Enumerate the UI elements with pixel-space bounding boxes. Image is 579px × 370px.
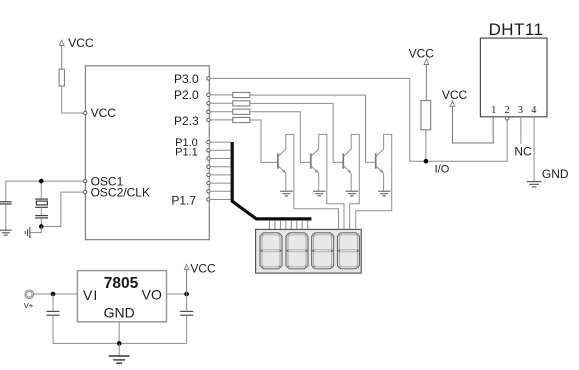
bus (thick) MCU P1 to display xyxy=(232,142,311,219)
transistor Q1 xyxy=(278,134,339,229)
resistor R4 (row P2.2) xyxy=(233,109,250,114)
digit 3 xyxy=(312,233,334,269)
wire R5 to Q1 base xyxy=(250,120,278,162)
wire R3 to Q3 base xyxy=(250,103,343,162)
7805 U3 box xyxy=(77,271,166,322)
resistor R2 (row P2.0) xyxy=(233,92,250,97)
wires P1.0-P1.7 to bus xyxy=(210,142,231,199)
wire R1 to MCU VCC pin xyxy=(62,86,85,113)
wire J1 to VI xyxy=(33,293,77,295)
pin P2.1 circle xyxy=(207,102,210,105)
svg-text:P2.0: P2.0 xyxy=(174,88,199,102)
wire P3.0 to DHT11 I/O xyxy=(210,78,507,161)
wire P2.0 to R2 xyxy=(210,94,233,96)
VCC symbol (DHT11 pin1) xyxy=(450,101,493,143)
wire R4 to Q2 base xyxy=(250,112,311,163)
svg-text:NC: NC xyxy=(514,144,532,158)
pin 3 stub NC xyxy=(520,117,522,144)
capacitor C4 (output) xyxy=(180,294,193,343)
MCU U1 box xyxy=(85,66,209,240)
wire R2 to Q4 base xyxy=(250,95,376,162)
svg-text:VI: VI xyxy=(83,287,98,303)
svg-text:VO: VO xyxy=(142,287,162,303)
ground (Q2 emitter) xyxy=(313,191,326,196)
transistor Q3 xyxy=(343,134,359,229)
wire OSC2/CLK xyxy=(43,192,85,226)
svg-text:VCC: VCC xyxy=(68,36,94,50)
junction dot node XTAL2 xyxy=(39,224,44,229)
capacitor C2 (below crystal) xyxy=(35,216,48,227)
VCC symbol (7805 output) xyxy=(184,264,189,294)
wire rail to ground symbol xyxy=(118,343,120,356)
VCC symbol (top left) xyxy=(59,40,64,69)
display DS1 box xyxy=(256,229,362,273)
bus comb ticks to display xyxy=(270,221,308,230)
ground (below C1) xyxy=(0,230,12,235)
pin P2.3 circle xyxy=(207,118,210,121)
pin OSC2/CLK circle xyxy=(84,190,87,193)
resistor R6 (vertical pull-up) xyxy=(421,101,431,130)
svg-text:4: 4 xyxy=(531,105,537,116)
svg-text:P2.3: P2.3 xyxy=(174,114,199,128)
resistor R1 (vertical, top left) xyxy=(59,69,64,86)
svg-text:GND: GND xyxy=(542,167,569,181)
svg-text:VCC: VCC xyxy=(409,47,435,61)
junction dot (ground rail) xyxy=(117,341,122,346)
pins P1.0-P1.7 circles xyxy=(207,140,210,201)
junction dot node XTAL1 xyxy=(39,179,44,184)
connector J1 V+ xyxy=(25,290,34,299)
svg-text:V+: V+ xyxy=(24,301,34,310)
digit 2 xyxy=(286,233,308,269)
wire GND pin to rail xyxy=(118,322,120,344)
wire VO to output node xyxy=(167,293,187,295)
svg-text:VCC: VCC xyxy=(442,88,468,102)
wire P2.1 to R3 xyxy=(210,102,233,104)
digit 1 xyxy=(260,233,282,269)
ground (Q4 emitter) xyxy=(378,191,391,196)
svg-text:GND: GND xyxy=(104,305,135,321)
transistor Q2 xyxy=(311,134,344,229)
junction dot node I/O xyxy=(424,159,429,164)
svg-text:VCC: VCC xyxy=(190,262,216,276)
pin OSC1 circle xyxy=(84,179,87,182)
svg-text:DHT11: DHT11 xyxy=(489,20,544,39)
wire OSC1 xyxy=(6,181,85,201)
pin P3.0 circle xyxy=(207,77,210,80)
svg-text:I/O: I/O xyxy=(435,163,450,175)
resistor R3 (row P2.1) xyxy=(233,101,250,106)
ground (7805) xyxy=(109,356,130,363)
ground (rotated, crystal) xyxy=(25,227,30,238)
pin VCC circle xyxy=(84,111,87,114)
wire P2.3 to R5 xyxy=(210,119,233,121)
ground (DHT11 pin4) xyxy=(527,182,542,187)
svg-text:1: 1 xyxy=(491,105,496,116)
pin P2.2 circle xyxy=(207,110,210,113)
pin P2.0 circle xyxy=(207,93,210,96)
svg-text:P3.0: P3.0 xyxy=(174,72,199,86)
DHT11 U2 box xyxy=(480,38,547,117)
svg-text:P1.7: P1.7 xyxy=(171,194,196,208)
wire R6 to I/O node xyxy=(425,130,427,161)
svg-text:7805: 7805 xyxy=(104,275,139,292)
svg-text:OSC2/CLK: OSC2/CLK xyxy=(91,186,150,200)
wire P2.2 to R4 xyxy=(210,111,233,113)
junction dot (input cap) xyxy=(51,292,56,297)
crystal Y1 xyxy=(35,181,48,216)
capacitor C3 (input) xyxy=(47,294,60,343)
pin 2 circle xyxy=(506,117,509,120)
svg-text:VCC: VCC xyxy=(91,106,117,120)
transistor Q4 xyxy=(356,134,392,229)
ground (Q1 emitter) xyxy=(280,191,293,196)
svg-text:3: 3 xyxy=(518,105,523,116)
capacitor C1 (left oscillator cap) xyxy=(0,202,12,230)
ground (Q3 emitter) xyxy=(346,191,359,196)
junction dot (output) xyxy=(184,292,189,297)
svg-text:P1.1: P1.1 xyxy=(175,146,198,158)
svg-text:2: 2 xyxy=(504,105,509,116)
VCC symbol (above R6 near DHT11) xyxy=(424,59,429,100)
pin 4 wire to ground xyxy=(533,117,535,182)
wire XTAL2 to ground xyxy=(30,227,42,233)
digit 4 xyxy=(337,233,359,269)
bottom wire (7805 ground rail) xyxy=(53,342,187,344)
resistor R5 (row P2.3) xyxy=(233,117,250,122)
